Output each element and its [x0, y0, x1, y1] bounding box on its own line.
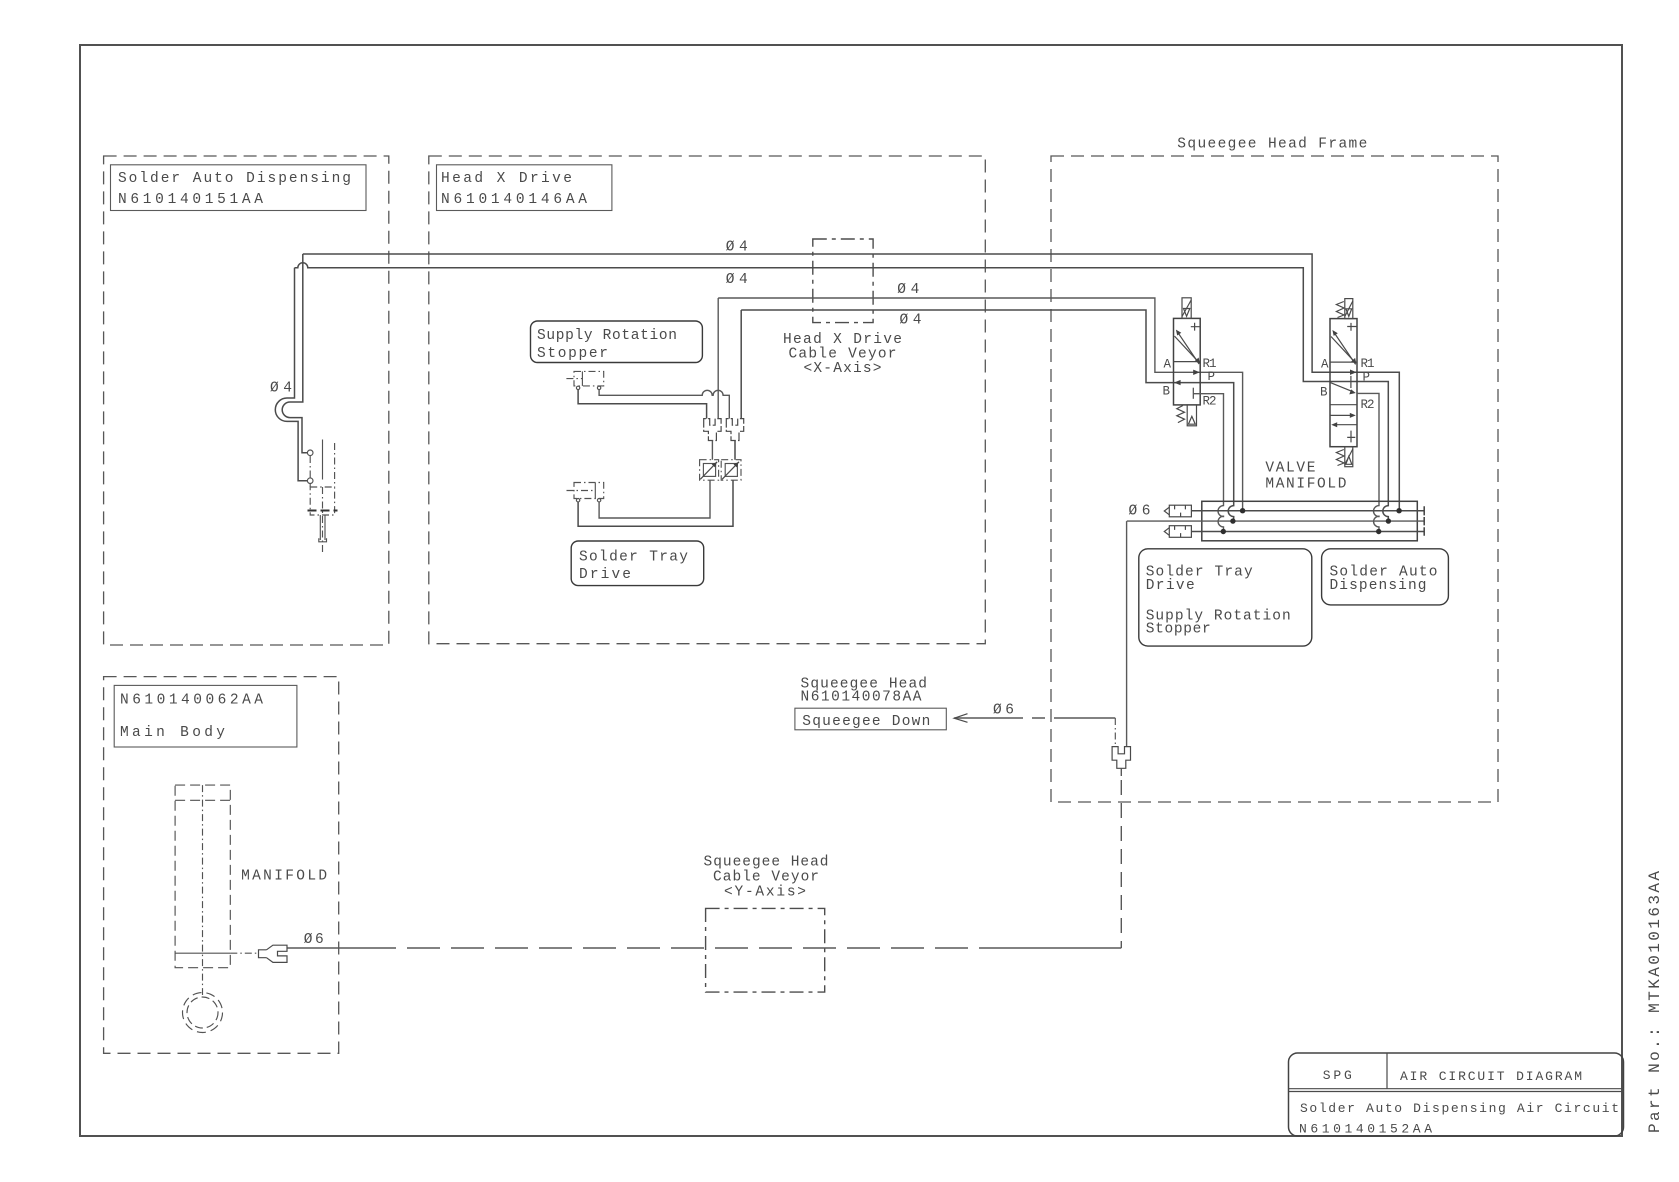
valve V1 bottom box blocked port R2 [1192, 388, 1194, 399]
svg-text:Squeegee Down: Squeegee Down [802, 714, 930, 730]
svg-text:Solder Tray: Solder Tray [579, 550, 688, 566]
label: Squeegee Head N610140078AA [801, 677, 928, 706]
dashed group box: Head X Drive N610140146AA [429, 156, 986, 644]
manifold channel 1 [1191, 510, 1424, 512]
svg-text:R2: R2 [1361, 398, 1375, 412]
wire squeegee Y-fitting down (dashed) [1120, 768, 1122, 776]
stopper cylinder (phantom) [566, 371, 603, 389]
cable veyor box (Y-axis) [706, 908, 825, 992]
wire L2 left drop with outer U-bend to lower port [275, 268, 307, 481]
svg-text:Drive: Drive [579, 567, 631, 583]
valve V2 middle box blocked port under P [1350, 376, 1352, 388]
valve V1 position divider [1174, 361, 1201, 363]
svg-text:Squeegee Head: Squeegee Head [704, 855, 829, 871]
wire stopper left port to left Y-fitting [578, 390, 707, 419]
wire L1 left drop with inner U-bend to upper port [282, 254, 307, 453]
svg-text:<Y-Axis>: <Y-Axis> [724, 884, 806, 900]
main body port circle [183, 993, 223, 1033]
valve V1 return spring [1177, 406, 1185, 423]
dashed group box: Solder Auto Dispensing N610140151AA [104, 156, 389, 645]
svg-text:MANIFOLD: MANIFOLD [1265, 477, 1346, 493]
svg-text:R1: R1 [1361, 357, 1375, 371]
svg-text:A: A [1164, 358, 1172, 372]
wire left speed controller to tray cylinder right port [599, 480, 710, 518]
tray cylinder (phantom) [567, 483, 604, 502]
valve V1 top box blocked port [1191, 323, 1200, 331]
manifold channel 3 [1191, 531, 1424, 533]
label box: Solder Auto Dispensing [111, 165, 367, 211]
svg-text:Squeegee Head Frame: Squeegee Head Frame [1177, 137, 1367, 153]
svg-text:Dispensing: Dispensing [1330, 578, 1427, 594]
valve V2 bottom box blocked port [1347, 431, 1355, 443]
svg-text:Supply Rotation: Supply Rotation [537, 328, 677, 344]
quick coupler plug ch3 [1164, 526, 1191, 538]
valve V2 middle box flow arrow right (P) [1350, 370, 1357, 375]
svg-text:VALVE: VALVE [1265, 461, 1315, 477]
junction dot V2-P to channel 1 [1396, 508, 1401, 513]
valve V2 bottom solenoid with spring [1336, 447, 1352, 467]
Y-fitting left (union) [704, 419, 721, 441]
svg-text:P: P [1208, 370, 1216, 384]
label box: Squeegee Down [795, 708, 946, 730]
svg-text:Solder Auto Dispensing Air Cir: Solder Auto Dispensing Air Circuit [1300, 1101, 1619, 1116]
Y-fitting right (union) [726, 419, 743, 441]
valve V2 (5/3 solenoid valve) body [1330, 319, 1357, 447]
dispensing actuator (phantom) [308, 440, 338, 555]
svg-text:B: B [1163, 385, 1171, 399]
valve V1 bottom box flow arrow left (B) [1174, 380, 1181, 385]
wire L4: air line to valve V1 B, through valve to manifold ch2 [741, 310, 1233, 521]
port circle upper (dispensing actuator) [307, 450, 313, 456]
wire L4 left drop to Y-fitting [740, 310, 742, 419]
svg-text:SPG: SPG [1323, 1068, 1352, 1083]
dash-dot link manifold to plug [230, 952, 258, 954]
valve V1 exhaust box [1187, 405, 1196, 426]
svg-text:Stopper: Stopper [537, 346, 608, 362]
valve V1 bottom box flow arrow right (P) [1193, 370, 1200, 375]
svg-text:P: P [1363, 371, 1371, 385]
wire right speed controller to tray cylinder left port [578, 480, 733, 526]
dashed group box: Squeegee Head Frame [1051, 156, 1498, 802]
wire L2: air line to valve V2 B, through valve to manifold ch2 [295, 263, 1389, 521]
main body manifold (phantom) [175, 785, 230, 995]
rounded label box: Supply Rotation Stopper [531, 321, 703, 363]
junction dot V2-R2 to channel 3 [1376, 529, 1381, 534]
junction dot V1-R2 to channel 3 [1221, 529, 1226, 534]
valve manifold block [1202, 501, 1418, 541]
rounded label box: Solder Tray Drive [571, 541, 704, 586]
squeegee down branch (dashed with arrow) [954, 714, 1115, 747]
svg-text:A: A [1321, 358, 1329, 372]
valve V1 solenoid [1182, 298, 1191, 319]
speed controller left [700, 460, 719, 481]
svg-text:Cable Veyor: Cable Veyor [713, 870, 819, 886]
valve V2 middle box diagonal flow B to R2 [1330, 382, 1356, 394]
label box: Main Body [114, 685, 297, 747]
svg-text:B: B [1320, 386, 1328, 400]
svg-text:Stopper: Stopper [1146, 622, 1211, 638]
squeegee Y-fitting [1112, 747, 1130, 769]
wire right Y-fitting to speed controller [734, 441, 736, 460]
svg-text:R2: R2 [1203, 395, 1217, 409]
wire left Y-fitting to speed controller [711, 441, 713, 460]
dashed group box: Main Body N610140062AA [104, 677, 339, 1054]
wire manifold ch2 down to squeegee Y-fitting right prong [1126, 521, 1128, 747]
valve V1 top box flow arrows [1175, 330, 1200, 364]
svg-text:N610140078AA: N610140078AA [801, 690, 922, 706]
svg-text:<X-Axis>: <X-Axis> [804, 361, 882, 377]
wire L1: air line to valve V2 P, through valve to manifold ch1 [303, 254, 1400, 511]
valve V2 bottom box flow arrows [1330, 413, 1357, 427]
junction dot V2-B to channel 2 [1386, 518, 1391, 523]
junction dot V1-P to channel 1 [1240, 508, 1245, 513]
svg-text:Main Body: Main Body [120, 725, 225, 741]
valve V1 (5/2 solenoid valve) body [1174, 318, 1201, 405]
valve V2 top box flow arrows [1331, 330, 1356, 364]
quick coupler plug ch1 [1164, 505, 1191, 517]
svg-text:Drive: Drive [1146, 578, 1195, 594]
svg-text:Solder Auto Dispensing: Solder Auto Dispensing [118, 171, 351, 187]
label: Squeegee Head Cable Veyor Y-Axis [704, 855, 829, 901]
port circle lower (dispensing actuator) [307, 478, 313, 484]
Y-axis cable veyor line [287, 947, 1121, 949]
wire L3 left drop to Y-fitting [717, 298, 719, 419]
label box: Head X Drive [437, 165, 612, 211]
label: Head X Drive Cable Veyor X-Axis [783, 332, 902, 377]
title block [1289, 1053, 1624, 1137]
wire valve V2 middle box to manifold ch3 [1357, 393, 1379, 531]
label: VALVE MANIFOLD [1265, 461, 1346, 493]
wire valve V1 R2 to manifold ch3 [1193, 394, 1223, 532]
rounded label box: Solder Auto Dispensing [1322, 549, 1449, 605]
junction dot V1-B to channel 2 [1230, 518, 1235, 523]
main body plug fitting [259, 945, 288, 962]
valve V2 position dividers [1330, 362, 1357, 405]
wire stopper right port to right Y-fitting (with hops) [599, 390, 729, 419]
manifold channel end caps [1423, 506, 1425, 536]
speed controller right [721, 460, 741, 481]
rounded label box: Solder Tray Drive / Supply Rotation Stopper [1139, 549, 1312, 646]
valve V2 top box blocked port [1347, 323, 1357, 331]
manifold channel 2 [1127, 520, 1424, 522]
cable veyor box (X-axis) [813, 239, 873, 323]
valve V2 top solenoid with spring [1336, 299, 1352, 319]
wire L3: air line to valve V1 P, through valve to manifold ch1 [718, 298, 1242, 511]
svg-text:R1: R1 [1203, 357, 1217, 371]
